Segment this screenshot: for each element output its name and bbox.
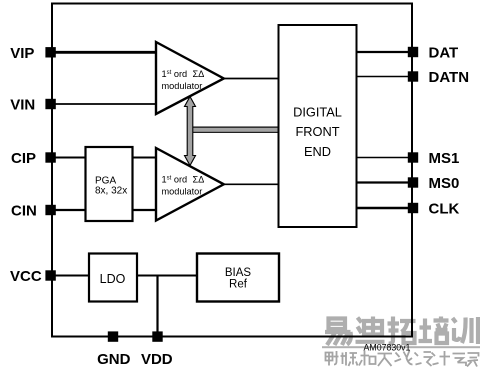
svg-text:CLK: CLK bbox=[429, 201, 460, 218]
svg-text:DATN: DATN bbox=[429, 69, 470, 86]
pin CIN bbox=[45, 205, 55, 215]
svg-text:END: END bbox=[304, 144, 331, 159]
wire MS0 bbox=[357, 181, 413, 183]
svg-text:VIN: VIN bbox=[10, 97, 35, 114]
wire VCC to LDO bbox=[52, 275, 89, 277]
svg-text:Ref: Ref bbox=[229, 279, 248, 291]
wire MS1 bbox=[357, 157, 413, 159]
wire PGA to modulator 2 (CIP path) bbox=[133, 157, 158, 159]
BIAS Ref block bbox=[197, 254, 279, 302]
svg-text:CIP: CIP bbox=[11, 150, 36, 167]
op-amp triangle modulator 1 bbox=[156, 42, 224, 114]
wire VIP bbox=[52, 51, 156, 54]
svg-text:CIN: CIN bbox=[11, 203, 37, 220]
wire LDO to BIAS bbox=[137, 275, 197, 277]
svg-text:modulator: modulator bbox=[162, 187, 203, 197]
PGA block bbox=[86, 147, 133, 221]
wire PGA to modulator 2 (CIN path) bbox=[133, 209, 158, 211]
watermark line1 char 培 bbox=[419, 317, 449, 344]
svg-text:MS0: MS0 bbox=[429, 175, 460, 192]
outer boundary box bbox=[52, 4, 412, 337]
svg-text:VIP: VIP bbox=[10, 45, 34, 62]
pin MS0 bbox=[408, 177, 418, 187]
pin VDD bbox=[152, 331, 162, 341]
watermark line1 char 迪 bbox=[356, 317, 385, 342]
svg-text:DIGITAL: DIGITAL bbox=[293, 104, 342, 119]
svg-text:DAT: DAT bbox=[429, 45, 459, 62]
DIGITAL FRONT END block bbox=[279, 25, 357, 227]
watermark line1 char 拓 bbox=[388, 317, 416, 344]
pin MS1 bbox=[408, 152, 418, 162]
svg-text:BIAS: BIAS bbox=[225, 267, 252, 279]
vertical double arrow between modulators bbox=[185, 97, 196, 166]
wire CLK bbox=[357, 207, 413, 209]
svg-text:VDD: VDD bbox=[141, 351, 173, 368]
wire CIP bbox=[52, 157, 86, 159]
watermark line1 char 易 bbox=[325, 319, 351, 346]
svg-text:AM07830v1: AM07830v1 bbox=[364, 343, 411, 353]
LDO block bbox=[89, 254, 137, 302]
wire modulator2 output to DFE bbox=[224, 183, 279, 185]
watermark line1 char 训 bbox=[453, 317, 479, 344]
wire DAT bbox=[357, 51, 413, 53]
op-amp triangle modulator 2 bbox=[156, 148, 224, 221]
wire VIN bbox=[52, 103, 156, 105]
pin VCC bbox=[45, 270, 55, 280]
wire DATN bbox=[357, 76, 413, 78]
svg-text:LDO: LDO bbox=[100, 272, 126, 286]
wire modulator1 output to DFE bbox=[224, 78, 279, 80]
pin VIP bbox=[45, 47, 55, 57]
pin GND bbox=[108, 331, 118, 341]
wire VDD vertical drop bbox=[156, 276, 158, 337]
svg-text:FRONT: FRONT bbox=[295, 124, 339, 139]
wire CIN bbox=[52, 209, 86, 211]
watermark line2 射频和天线设计专家 bbox=[326, 351, 479, 367]
pin CIP bbox=[45, 152, 55, 162]
pin DATN bbox=[408, 71, 418, 81]
watermark underline bbox=[322, 346, 480, 348]
svg-text:modulator: modulator bbox=[162, 81, 203, 91]
svg-text:GND: GND bbox=[97, 351, 131, 368]
pin DAT bbox=[408, 47, 418, 57]
pin VIN bbox=[45, 99, 55, 109]
svg-text:MS1: MS1 bbox=[429, 150, 460, 167]
svg-text:VCC: VCC bbox=[10, 268, 42, 285]
gray bus modulators to DFE bbox=[190, 127, 279, 132]
svg-text:8x, 32x: 8x, 32x bbox=[95, 186, 127, 197]
pin CLK bbox=[408, 203, 418, 213]
